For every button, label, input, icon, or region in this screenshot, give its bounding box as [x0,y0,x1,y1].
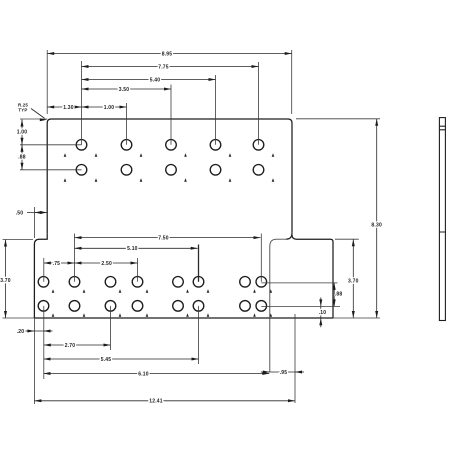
dimension .88 left vertical [21,145,23,170]
dimension .88 right [333,283,335,307]
extension lines top [46,50,48,114]
extensions: lower hole columns down [43,306,45,379]
plate outline: bottom edge [34,317,333,319]
plate inner bend line at x=269.8 (thin) [270,239,287,372]
dimension 12.41 [34,400,295,402]
dimension 2.70 [44,344,111,346]
dimension 6.10 [44,373,270,375]
extensions lower-right [335,238,359,240]
svg-text:7.50: 7.50 [158,235,169,241]
plate outline: left step [34,234,47,318]
dimension 3.70 right [352,239,354,318]
svg-text:6.10: 6.10 [138,371,149,377]
dimension 7.75 [82,66,259,68]
svg-text:3.70: 3.70 [0,278,11,284]
dimension 5.40 [82,79,216,81]
svg-text:12.41: 12.41 [149,399,163,405]
dimension 8.30 right [376,119,378,318]
svg-text:3.50: 3.50 [119,87,130,93]
svg-text:.10: .10 [319,310,327,316]
svg-text:.20: .20 [17,329,25,335]
svg-text:.50: .50 [16,210,24,216]
extensions: right small dims [261,282,337,284]
svg-text:5.45: 5.45 [101,357,112,363]
svg-text:1.00: 1.00 [104,105,115,111]
dimension .75 [44,262,75,264]
holes: lower section rows [38,277,49,288]
dimension 1.00 left vertical [21,120,23,145]
dimension 1.00 horizontal [82,106,127,108]
extension lines right of tab [296,118,380,120]
plate outline: right lower section [292,235,333,318]
svg-text:1.30: 1.30 [63,105,74,111]
side view bend lines [439,125,445,127]
dimension 5.10 [75,247,198,249]
dimension 3.70 left [5,240,7,319]
datum marks near holes [95,153,98,156]
holes: top tab rows [76,140,87,151]
svg-text:TYP: TYP [18,108,27,113]
side view outline [439,118,445,321]
dimension 1.30 [47,106,81,108]
extensions lower-left 3.70 [3,239,34,241]
extension left edge below [33,318,35,404]
svg-text:1.00: 1.00 [17,129,28,135]
svg-text:.88: .88 [335,291,343,297]
dimension .95 [270,371,295,373]
extensions: lower hole columns up [43,258,45,282]
svg-text:2.50: 2.50 [101,261,112,267]
dimension 3.50 [82,88,172,90]
svg-text:8.95: 8.95 [162,51,173,57]
svg-text:8.30: 8.30 [371,223,382,229]
svg-text:.75: .75 [53,261,61,267]
dimension 5.45 [44,358,199,360]
extension: left step [33,207,35,238]
dimension .50 step [27,212,47,214]
extension lines left of tab [20,118,47,120]
dimension 7.50 [75,237,261,239]
dimension 2.50 [75,262,138,264]
svg-text:5.10: 5.10 [127,246,138,252]
extension x=293.3 (tab edge) below [294,314,296,403]
svg-text:5.40: 5.40 [150,77,161,83]
leader R.25 TYP [31,109,45,119]
svg-text:.88: .88 [18,154,26,160]
svg-text:.95: .95 [280,370,288,376]
svg-text:7.75: 7.75 [158,64,169,70]
svg-text:3.70: 3.70 [348,278,359,284]
dimension .10 right [320,306,322,318]
dimension .20 [34,330,43,332]
plate outline: top tab [47,119,292,234]
dimension 8.95 [47,53,292,55]
svg-text:2.70: 2.70 [65,343,76,349]
